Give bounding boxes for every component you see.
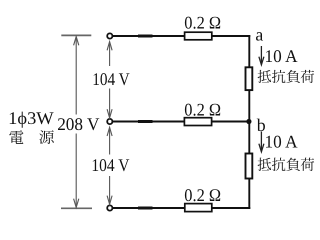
svg-text:b: b bbox=[257, 115, 266, 135]
load resistor RL2 vertical bbox=[246, 154, 253, 179]
wire bottom horizontal (L2) bbox=[113, 207, 250, 209]
label resistive load 1 (teiko fuka) bbox=[258, 70, 315, 83]
wire right vertical bus (a to b to bottom) bbox=[248, 35, 250, 209]
current arrow 10A bottom bbox=[259, 132, 264, 152]
svg-text:0.2 Ω: 0.2 Ω bbox=[184, 185, 221, 205]
node b junction dot bbox=[246, 119, 251, 124]
svg-text:0.2 Ω: 0.2 Ω bbox=[184, 100, 221, 120]
svg-text:a: a bbox=[255, 25, 263, 45]
terminal top bbox=[107, 33, 112, 38]
label resistive load 2 (teiko fuka) bbox=[258, 158, 315, 171]
svg-text:1ϕ3W: 1ϕ3W bbox=[8, 108, 54, 128]
dimension tick top bbox=[61, 34, 91, 36]
wire thick segment middle bbox=[138, 120, 153, 123]
svg-text:0.2 Ω: 0.2 Ω bbox=[184, 13, 221, 33]
current arrow 10A top bbox=[259, 46, 264, 65]
resistor R1 0.2 ohm top bbox=[185, 32, 212, 40]
wire middle neutral line bbox=[113, 121, 249, 123]
wire thick segment top bbox=[138, 35, 153, 38]
resistor R2 0.2 ohm middle bbox=[184, 118, 211, 126]
dimension tick bottom bbox=[61, 207, 92, 209]
svg-text:208 V: 208 V bbox=[57, 114, 99, 134]
svg-text:10 A: 10 A bbox=[265, 46, 298, 66]
resistor R3 0.2 ohm bottom bbox=[185, 204, 212, 212]
wire top horizontal (L1) bbox=[113, 35, 250, 37]
svg-text:104 V: 104 V bbox=[91, 155, 129, 175]
svg-text:10 A: 10 A bbox=[265, 132, 298, 152]
dimension line 104V upper bbox=[107, 42, 112, 118]
terminal middle bbox=[107, 119, 112, 124]
label kanji dengen (power source) bbox=[9, 130, 53, 144]
load resistor RL1 vertical bbox=[246, 67, 253, 90]
dimension line 104V lower bbox=[107, 127, 112, 204]
wire thick segment bottom bbox=[138, 207, 153, 210]
terminal bottom bbox=[107, 205, 112, 210]
dimension line 208V bbox=[74, 37, 79, 208]
svg-text:104 V: 104 V bbox=[92, 69, 130, 89]
